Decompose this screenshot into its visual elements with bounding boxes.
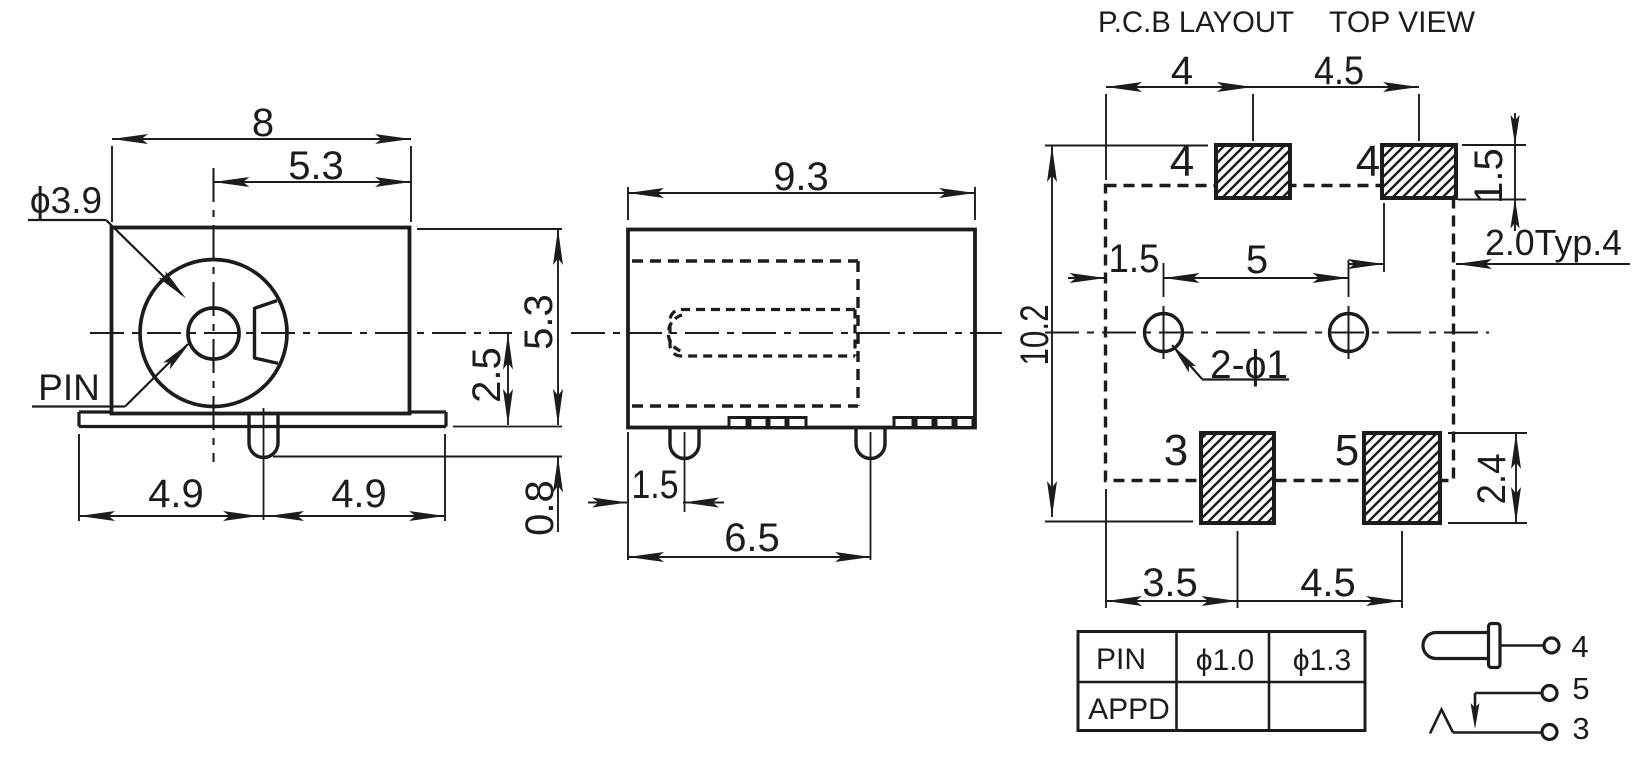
terminal 4 lead (1500, 644, 1543, 647)
hidden cavity dashed outline (632, 261, 858, 406)
svg-text:1.5: 1.5 (1467, 148, 1511, 204)
smt pad slots group 2 (894, 418, 973, 428)
svg-text:4.9: 4.9 (148, 472, 204, 516)
hidden barrel dashed outline (668, 310, 855, 357)
left view bottom pin (249, 414, 278, 458)
terminal 4 circle (1544, 638, 1559, 653)
svg-text:2.0Typ.4: 2.0Typ.4 (1485, 222, 1622, 263)
left view flange strip bottom (79, 412, 446, 427)
svg-text:5.3: 5.3 (288, 144, 344, 188)
svg-text:5: 5 (1335, 426, 1359, 475)
svg-text:8: 8 (252, 101, 274, 145)
pcb outline dashed (1106, 186, 1454, 481)
svg-text:2.5: 2.5 (465, 347, 509, 403)
svg-text:ϕ1.0: ϕ1.0 (1196, 644, 1255, 677)
dimension 5 hole pitch (1164, 238, 1349, 297)
svg-text:3: 3 (1572, 711, 1589, 746)
pad label 4 left (1170, 137, 1194, 186)
svg-text:3.5: 3.5 (1142, 561, 1198, 605)
svg-text:5: 5 (1246, 238, 1268, 282)
left front view body outline (112, 228, 410, 414)
dimension 5.3 top (214, 144, 412, 188)
dimension 6.5 (628, 516, 871, 562)
table cell phi 1.0 (1196, 644, 1255, 677)
solder pad 4 right (1382, 145, 1456, 198)
terminal 5 label (1572, 671, 1589, 706)
terminal 4 label (1571, 629, 1588, 664)
terminal 3 label (1572, 711, 1589, 746)
dimension 10.2 (1013, 146, 1208, 522)
center pin inner circle (188, 308, 239, 359)
solder pad 5 (1364, 433, 1440, 523)
side view right pin (856, 429, 885, 560)
svg-text:ϕ3.9: ϕ3.9 (30, 180, 102, 221)
plug barrel symbol (1423, 624, 1500, 668)
dimension 8 width (112, 101, 411, 222)
svg-text:4: 4 (1571, 629, 1588, 664)
svg-text:1.5: 1.5 (632, 463, 679, 507)
svg-text:APPD: APPD (1088, 693, 1170, 726)
svg-text:4: 4 (1170, 137, 1194, 186)
pin seating line (273, 456, 562, 458)
horizontal centerline left view (90, 332, 512, 334)
svg-text:5.3: 5.3 (517, 294, 561, 350)
barrel outer circle (140, 260, 287, 407)
key notch flat (255, 301, 279, 364)
side view centerline (571, 332, 1002, 334)
mounting hole left (1145, 306, 1183, 359)
pad label 4 right (1356, 137, 1380, 186)
table cell APPD (1088, 693, 1170, 726)
dimension 2.0 Typ.4 (1348, 203, 1630, 272)
table cell phi 1.3 (1293, 644, 1352, 677)
svg-text:0.8: 0.8 (518, 480, 562, 536)
side view left pin (670, 429, 699, 512)
svg-text:TOP VIEW: TOP VIEW (1329, 6, 1475, 39)
svg-text:3: 3 (1164, 426, 1188, 475)
svg-text:2.4: 2.4 (1470, 454, 1514, 505)
dimension 0.8 (518, 457, 563, 536)
dimension 2.5 (465, 334, 513, 426)
label phi 3.9 with leader (28, 180, 186, 299)
svg-text:4: 4 (1356, 137, 1380, 186)
title TOP VIEW (1329, 6, 1475, 39)
solder pad 4 left (1216, 145, 1290, 198)
terminal 5 circle (1542, 686, 1557, 701)
dimension 1.5 pad height (1458, 113, 1526, 231)
svg-text:6.5: 6.5 (724, 516, 780, 560)
terminal 3 circle (1542, 725, 1557, 740)
svg-text:9.3: 9.3 (773, 155, 829, 199)
svg-text:10.2: 10.2 (1013, 305, 1057, 366)
vertical centerline left view (212, 168, 214, 462)
svg-text:PIN: PIN (38, 367, 100, 408)
smt pad slots group 1 (729, 418, 806, 428)
svg-text:4.9: 4.9 (331, 472, 387, 516)
pad label 5 (1335, 426, 1359, 475)
pin table grid (1078, 632, 1365, 731)
svg-text:4: 4 (1171, 49, 1193, 93)
title PCB LAYOUT (1098, 6, 1294, 39)
dimension 4 top (1106, 49, 1253, 180)
dimension 3.5 bottom (1106, 489, 1238, 608)
pcb centerline (1045, 331, 1489, 333)
mounting hole right (1330, 306, 1368, 359)
dimension 4.5 top (1253, 49, 1419, 141)
dimension 1.5 hole offset (1068, 237, 1160, 283)
label 2-phi1 with leader (1172, 343, 1289, 387)
svg-text:P.C.B LAYOUT: P.C.B LAYOUT (1098, 6, 1294, 39)
spring contact (1430, 710, 1453, 734)
svg-text:4.5: 4.5 (1300, 561, 1356, 605)
svg-text:ϕ1.3: ϕ1.3 (1293, 644, 1352, 677)
terminal 3 lead (1453, 731, 1542, 734)
svg-text:PIN: PIN (1096, 643, 1146, 676)
table cell PIN (1096, 643, 1146, 676)
pad label 3 (1164, 426, 1188, 475)
svg-text:5: 5 (1572, 671, 1589, 706)
dimension 9.3 (628, 155, 975, 220)
dimension 4.9 left (79, 434, 264, 521)
dimension 2.4 pad height (1448, 433, 1527, 523)
svg-text:4.5: 4.5 (1314, 49, 1364, 93)
pin centerline left view (263, 408, 265, 520)
dimension 4.9 right (264, 434, 446, 521)
dimension 1.5 side view (588, 432, 724, 560)
svg-text:1.5: 1.5 (1109, 237, 1160, 281)
dimension 4.5 bottom (1238, 531, 1403, 608)
label PIN with leader (32, 342, 191, 408)
solder pad 3 (1201, 433, 1274, 523)
side view body outline (628, 230, 975, 428)
dimension 5.3 height right (417, 229, 563, 427)
terminal 5 lead with contact arrow (1471, 693, 1543, 729)
